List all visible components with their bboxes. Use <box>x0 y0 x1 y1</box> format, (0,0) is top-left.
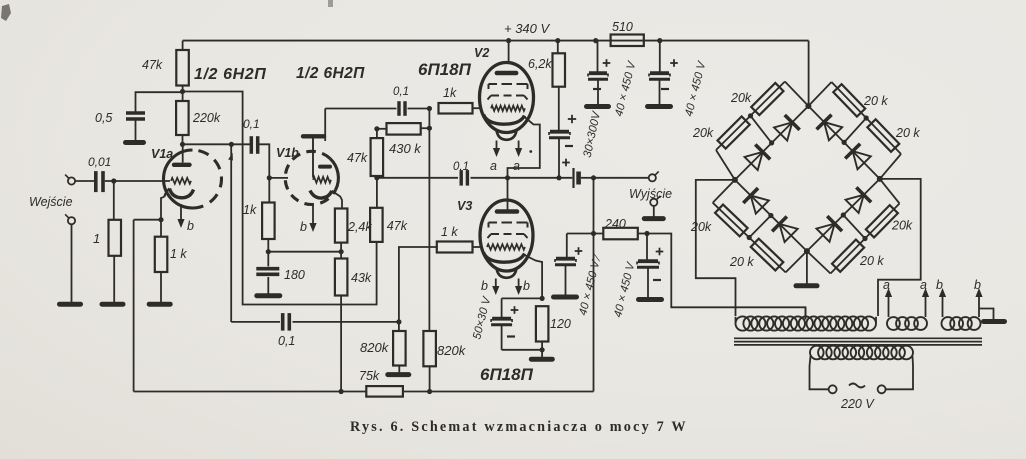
wire: divider junction to 2,4k/43k node <box>268 251 341 253</box>
wire: V1a cathode to junction <box>161 197 164 220</box>
ground bar (820k) <box>388 372 409 377</box>
wire: bus to output cap <box>508 177 573 179</box>
svg-text:Wejście: Wejście <box>29 195 73 209</box>
wire: cathode network bottom <box>502 349 542 351</box>
label 0,01 <box>88 155 111 169</box>
ground bar (cap#3) <box>554 295 577 300</box>
wire: cap#2 riser <box>659 41 661 72</box>
V2 anode bar <box>497 71 516 76</box>
label minus (30x300V) <box>565 145 573 147</box>
label 6,2k <box>528 57 552 71</box>
svg-text:b: b <box>481 279 488 293</box>
label 43k <box>351 271 372 285</box>
svg-text:0,1: 0,1 <box>453 161 469 173</box>
svg-text:120: 120 <box>550 317 571 331</box>
diode (SE 2) <box>845 187 871 213</box>
svg-text:b: b <box>523 279 530 293</box>
V1a cathode arc <box>164 189 193 198</box>
ground bar (cap#1) <box>587 104 609 109</box>
capacitor 0,5 <box>126 113 145 119</box>
input terminal (ground) <box>65 214 75 224</box>
wire: 47k to 220k <box>182 86 184 102</box>
wire: grid junction into tube <box>269 177 288 179</box>
node: V1a anode junction <box>180 142 185 147</box>
label 40x450V (cap#2) <box>683 59 709 117</box>
wire: 240 right to node <box>638 233 647 235</box>
label 510 <box>612 20 633 34</box>
node: 820k#2 on bus <box>427 389 432 394</box>
V1b center electrode line <box>312 139 314 178</box>
node: 430k/47k junction <box>374 126 379 131</box>
label + (output cap) <box>562 159 570 167</box>
node: bridge east <box>877 176 883 182</box>
label 820k (left) <box>360 340 390 355</box>
V1a grid (zigzag) <box>171 178 191 184</box>
label V2 <box>474 46 489 60</box>
V1b top bar <box>303 134 324 138</box>
wire: cap#1 riser <box>597 41 599 72</box>
input terminal (hot) <box>65 175 75 185</box>
svg-text:40 × 450 V: 40 × 450 V <box>612 260 638 318</box>
wire: cathode junction to feedback line <box>134 219 161 221</box>
label 180 <box>284 268 305 282</box>
wire: input ground terminal down <box>71 224 73 302</box>
resistor 20k (SE outer 1) <box>832 240 864 272</box>
wire: cap#2 to ground <box>659 81 661 105</box>
svg-text:20k: 20k <box>730 91 752 105</box>
resistor 430k <box>377 123 430 135</box>
capacitor 30x300V (electrolytic) <box>549 132 570 138</box>
node: bridge west <box>732 177 738 183</box>
scan blemish top-left <box>1 4 11 21</box>
heater winding a <box>887 317 927 330</box>
svg-text:0,1: 0,1 <box>243 117 260 131</box>
svg-text:50×30 V: 50×30 V <box>471 295 493 341</box>
diode (NW 2) <box>744 144 770 170</box>
V1a anode bar <box>174 163 190 167</box>
heater arrow b (winding left) <box>939 288 946 317</box>
resistor 510 (filter) <box>611 35 644 47</box>
V3 screen grid dashes row2 <box>488 234 528 238</box>
node: V1b grid junction <box>267 175 272 180</box>
wire: cap#4 to ground <box>647 269 649 298</box>
wire: 0,1 to V2 cathode node <box>471 177 508 179</box>
wire: 47k to SRPP bus <box>376 176 378 178</box>
wire: 240 line left stub <box>567 233 604 235</box>
svg-text:1/2 6Н2П: 1/2 6Н2П <box>296 65 365 82</box>
V3 cathode arc <box>484 253 525 263</box>
svg-text:b: b <box>187 219 194 233</box>
label 0,1 (V3 grid) <box>278 334 295 348</box>
ground (resistor 1) <box>102 302 123 307</box>
svg-text:40 × 450 V ∕: 40 × 450 V ∕ <box>577 252 604 317</box>
resistor 2,4k (V1b cathode) <box>335 209 348 243</box>
svg-text:20 k: 20 k <box>895 126 920 140</box>
wire: NW chain <box>716 82 808 180</box>
label b (V3 left) <box>481 279 488 293</box>
svg-text:1: 1 <box>93 231 100 246</box>
label 6П18П (V3) <box>480 365 534 384</box>
svg-text:6,2k: 6,2k <box>528 57 552 71</box>
resistor 220k (V1a anode load 2) <box>176 101 189 135</box>
wire: resistor 1 to ground <box>113 256 115 302</box>
svg-text:47k: 47k <box>347 151 368 165</box>
chassis bar (0,5 cap) <box>126 140 144 145</box>
label 220k <box>192 111 221 125</box>
wire: V3 grid node up and right to 1k <box>399 247 437 322</box>
resistor 20k (NE outer 2) <box>867 119 899 151</box>
label minus (cap#4) <box>653 279 661 281</box>
wire: node to V3 anode <box>507 178 509 210</box>
node: V3 grid node <box>396 319 401 324</box>
resistor 6,2k (V2 screen) <box>553 41 566 87</box>
diode (SE 1) <box>816 216 842 242</box>
label + (cap#4) <box>656 248 664 256</box>
heater arrow a (V2 right) <box>515 141 522 158</box>
resistor 43k <box>335 259 348 296</box>
node: rail at cap#1 <box>593 38 598 43</box>
heater arrow a (winding left) <box>885 288 892 317</box>
wire: 820k#2 riser (V2 grid leak) <box>428 128 430 331</box>
wire: NE chain <box>808 82 901 179</box>
V2 cathode arc <box>484 115 525 125</box>
svg-text:0,01: 0,01 <box>88 155 111 169</box>
svg-text:240: 240 <box>604 217 626 231</box>
svg-text:20k: 20k <box>891 219 913 233</box>
V1b anode bar <box>320 165 330 169</box>
label 0,1 (coupling #1) <box>243 117 260 131</box>
wire: 47k lower to bootstrap line <box>376 242 378 243</box>
node: NE chain midpoint <box>864 115 869 120</box>
label 430k <box>389 141 422 156</box>
HV secondary winding <box>736 316 877 330</box>
node: bridge top <box>805 103 811 109</box>
label Wejscie <box>29 195 73 209</box>
dot mark near V2 heater <box>529 150 532 153</box>
wire: input to V1a grid <box>75 180 170 182</box>
node: V2 cathode / V3 anode node <box>505 175 510 180</box>
svg-text:Rys. 6. Schemat wzmacniacza o: Rys. 6. Schemat wzmacniacza o mocy 7 W <box>350 419 688 435</box>
label 1k (V2 grid) <box>443 86 457 100</box>
node: output junction <box>581 175 596 180</box>
wire: winding b to chassis <box>979 309 994 320</box>
transformer core <box>734 338 982 345</box>
node: 43k on bus <box>339 389 344 394</box>
label + (cap#3) <box>575 247 583 255</box>
ground (input terminal) <box>60 302 81 307</box>
node: V1b divider junction <box>266 249 271 254</box>
wire: NE equalizing stub <box>844 118 866 142</box>
label 20k (NW lower) <box>692 126 714 140</box>
svg-text:1k: 1k <box>443 86 457 100</box>
node: junction above V1a <box>229 142 234 147</box>
svg-text:820k: 820k <box>360 340 390 355</box>
wire: bottom 0,1 line from V1a anode stub <box>231 321 280 323</box>
output terminal (ground) <box>650 196 660 206</box>
wire: 2,4k to 43k <box>340 243 342 259</box>
resistor 47k (upper) <box>371 129 384 176</box>
label b (winding left) <box>936 278 943 292</box>
resistor 120 (V3 cathode) <box>536 306 549 341</box>
V3 heater dome <box>497 269 517 278</box>
svg-text:43k: 43k <box>351 271 372 285</box>
node: SE inner midpoint <box>841 212 846 217</box>
output terminal (hot) <box>649 171 659 181</box>
label 40x450V (cap#4) <box>612 260 638 318</box>
AC tilde symbol <box>849 384 865 388</box>
tube V1b envelope (dashed) <box>285 151 338 204</box>
node: 2,4k/43k junction <box>339 249 344 254</box>
resistor 1k (V2 grid stopper) <box>439 103 481 114</box>
wire: 1k bottom to junction <box>267 239 269 252</box>
capacitor 0,1 (V1a-V1b coupling) <box>251 136 257 154</box>
wire: 0,5 cap top connection <box>136 92 183 112</box>
wire: 820k#2 to bottom bus <box>429 366 431 391</box>
label 1/2 6N2P (V1b) <box>296 65 365 82</box>
svg-text:b: b <box>300 220 307 234</box>
wire: primary left leg <box>810 356 829 389</box>
svg-text:1 k: 1 k <box>441 225 458 239</box>
label minus (cap#2) <box>661 88 669 90</box>
wire: 6,2k to 30x300V cap <box>558 87 560 131</box>
wire: 0,1 to V1b grid <box>258 144 269 178</box>
heater arrow a (winding right) <box>922 288 929 317</box>
wire: cap#1 to ground <box>597 81 599 105</box>
wire: SE equalizing stub <box>843 215 865 239</box>
V2 screen grid dashes row2 <box>488 96 528 100</box>
wire: cathode junction left <box>502 297 542 299</box>
label + (50x30V) <box>511 306 519 314</box>
diode (NE 1) <box>817 115 843 141</box>
svg-text:47k: 47k <box>387 219 408 233</box>
wire: 1k to ground <box>160 272 162 302</box>
label 40x450V (cap#3) <box>577 252 604 317</box>
wire: SE inner side <box>807 179 880 251</box>
resistor 1 (input grid leak) <box>109 220 122 256</box>
tube V3 envelope <box>480 200 533 271</box>
svg-text:6П18П: 6П18П <box>418 60 472 79</box>
wire: 120 to bottom node <box>541 342 543 350</box>
node: rail at 6,2k <box>555 38 560 43</box>
wire: bottom feedback bus right <box>403 391 594 393</box>
svg-text:V2: V2 <box>474 46 489 60</box>
label 240 <box>604 217 626 231</box>
node: 47k/220k junction <box>180 89 185 94</box>
svg-text:20k: 20k <box>690 220 712 234</box>
node: 47k pair junction on bus <box>374 175 379 180</box>
wire: feedback riser to output <box>593 178 595 392</box>
svg-text:20 k: 20 k <box>729 255 754 269</box>
resistor 20k (NW outer 2) <box>718 116 750 148</box>
capacitor 0,1 (bus) <box>461 170 467 186</box>
diode (SW 2) <box>772 216 798 242</box>
node: rail at V2 anode <box>506 38 511 43</box>
resistor 47k (lower) <box>370 178 383 242</box>
label 30x300V <box>582 109 604 158</box>
node: bridge south <box>804 248 810 254</box>
label 47k (lower) <box>387 219 408 233</box>
label 50x30V <box>471 295 493 341</box>
svg-text:2,4k: 2,4k <box>347 220 372 234</box>
resistor 20k (SW outer 1) <box>715 205 748 237</box>
tube V1a envelope (dashed right) <box>164 150 222 208</box>
svg-text:6П18П: 6П18П <box>480 365 534 384</box>
svg-text:Wyjście: Wyjście <box>629 187 672 201</box>
wire: V2 grid node down to 430k node <box>428 109 430 129</box>
label a (winding left) <box>883 278 890 292</box>
heater arrow b (V3 right) <box>515 279 522 296</box>
svg-text:V1a: V1a <box>151 147 173 161</box>
node: NW chain midpoint <box>748 113 753 118</box>
wire: SE chain <box>807 179 900 274</box>
primary terminal right <box>878 385 886 393</box>
resistor 1k (V1a cathode) <box>155 220 168 272</box>
label b (winding right) <box>974 278 981 292</box>
wire: 47k riser from rail <box>182 41 184 50</box>
ground bar (Wyjscie) <box>644 216 663 221</box>
resistor 820k (V3 grid leak) <box>393 322 406 366</box>
node: V3 cathode junction <box>540 296 545 301</box>
capacitor 0,01 (input coupling) <box>96 171 103 192</box>
node: NE inner midpoint <box>842 140 847 145</box>
V1b cathode arc <box>310 191 332 199</box>
wire: V1a anode node to 0,1 coupling <box>183 143 251 145</box>
label 20k (NE lower) <box>895 126 920 140</box>
label Wyjscie <box>629 187 672 201</box>
svg-text:0,1: 0,1 <box>278 334 295 348</box>
wire: terminal to ground <box>653 206 655 217</box>
resistor 1k (V1b grid) <box>262 178 275 239</box>
V2 heater dome <box>497 131 517 140</box>
label 47k <box>142 58 163 72</box>
wire: rail to bridge top <box>808 41 810 106</box>
node: NW inner midpoint <box>769 140 774 145</box>
label 0,1 (bus) <box>453 161 469 173</box>
wire: 30x300V to bus <box>558 139 560 178</box>
wire: 40x450V#3 riser <box>566 234 568 259</box>
ground bar (180 cap) <box>257 293 280 298</box>
svg-text:430 k: 430 k <box>389 141 422 156</box>
resistor 20k (NW outer 1) <box>751 83 783 115</box>
wire: 820k#1 to ground <box>398 366 400 373</box>
label 20k (SE lower) <box>891 219 913 233</box>
label 1k (V1b grid) <box>243 203 257 217</box>
svg-text:1 k: 1 k <box>170 247 187 261</box>
wire: primary right leg <box>886 356 913 389</box>
svg-text:47k: 47k <box>142 58 163 72</box>
heater arrow b (V1b) <box>309 204 316 232</box>
node: cathode network ground node <box>540 347 545 352</box>
label + (cap#1) <box>603 59 611 67</box>
label 47k (upper) <box>347 151 368 165</box>
svg-text:V1b: V1b <box>276 146 299 160</box>
label 1k (V3 grid) <box>441 225 458 239</box>
wire: grid junction to resistor 1 <box>113 181 115 220</box>
svg-text:a: a <box>883 278 890 292</box>
wire: 0,1 to V2 grid node <box>408 108 430 110</box>
label 1k (V1a cathode) <box>170 247 187 261</box>
node: 430k right node <box>427 126 432 131</box>
ground bar (bridge) <box>796 283 817 288</box>
node: screen cap on bus <box>556 175 561 180</box>
capacitor 40x450V #1 <box>588 73 608 79</box>
label 75k <box>359 369 380 383</box>
tube V2 envelope <box>480 63 534 133</box>
wire: SRPP bus to 0,1 <box>377 177 458 179</box>
V1b anode riser <box>324 109 326 142</box>
label + (30x300V) <box>568 115 576 123</box>
label 1 <box>93 231 100 246</box>
V3 control grid (zigzag) <box>487 244 525 250</box>
label 20k (SW upper) <box>690 220 712 234</box>
label 0,5 <box>95 111 112 125</box>
ground bar (V3 cathode) <box>531 357 552 362</box>
wire: NW inner side <box>735 106 809 180</box>
wire: feedback vertical (left) <box>133 220 135 392</box>
wire: V1b anode to 0,1 and 430k <box>325 108 396 110</box>
label 20k (SE upper) <box>859 254 884 268</box>
label a (V2 left) <box>490 159 497 173</box>
resistor 20k (SE outer 2) <box>866 205 898 237</box>
HV center tap riser <box>805 307 807 319</box>
svg-text:V3: V3 <box>457 199 472 213</box>
wire: 240 node to HV center tap <box>647 234 806 319</box>
svg-text:a: a <box>920 278 927 292</box>
V3 anode bar <box>497 209 517 214</box>
svg-text:b: b <box>936 278 943 292</box>
svg-text:40 × 450 V: 40 × 450 V <box>683 59 709 117</box>
label 820k (right) <box>437 343 467 358</box>
wire: top +340V rail <box>183 40 809 42</box>
wire: 50x30V to bottom <box>501 326 503 350</box>
label minus (cap#1) <box>593 88 601 90</box>
label 20k (NW upper) <box>730 91 752 105</box>
diode (NE 2) <box>845 144 871 170</box>
label a (winding right) <box>920 278 927 292</box>
wire: 50x30V riser <box>501 298 503 317</box>
resistor 240 <box>603 228 638 240</box>
svg-text:220 V: 220 V <box>840 397 875 411</box>
ground bar (cap#2) <box>648 104 671 109</box>
node: rail at cap#2 <box>657 38 662 43</box>
stub with wedge below junction <box>228 144 233 322</box>
wire: node to ground <box>541 350 543 357</box>
label 20k (SW lower) <box>729 255 754 269</box>
wire: NW equalizing stub <box>751 116 772 143</box>
diode (NW 1) <box>773 115 799 141</box>
V2 control grid (zigzag) <box>491 106 525 111</box>
wire: bridge east to AC frame <box>878 179 921 316</box>
wire: bootstrap 220k-top to 47k#2 bottom <box>183 92 377 305</box>
node: SW inner midpoint <box>768 213 773 218</box>
svg-text:b: b <box>974 278 981 292</box>
label minus (50x30V) <box>507 335 515 337</box>
wire: V3 cathode to node <box>525 255 543 298</box>
label V3 <box>457 199 472 213</box>
ground bar (heater winding) <box>984 319 1005 324</box>
svg-text:20 k: 20 k <box>863 94 888 108</box>
svg-text:+ 340 V: + 340 V <box>504 21 551 36</box>
svg-text:510: 510 <box>612 20 633 34</box>
label a (V2 right) <box>513 159 520 173</box>
wire: SW inner side <box>735 180 807 251</box>
wire: rail to V2 anode <box>508 41 510 64</box>
label + (cap#2) <box>670 59 678 67</box>
svg-text:1k: 1k <box>243 203 257 217</box>
node: V1a grid junction <box>111 178 116 183</box>
capacitor 0,1 (V3 grid coupling) <box>283 313 290 331</box>
svg-text:0,5: 0,5 <box>95 111 112 125</box>
